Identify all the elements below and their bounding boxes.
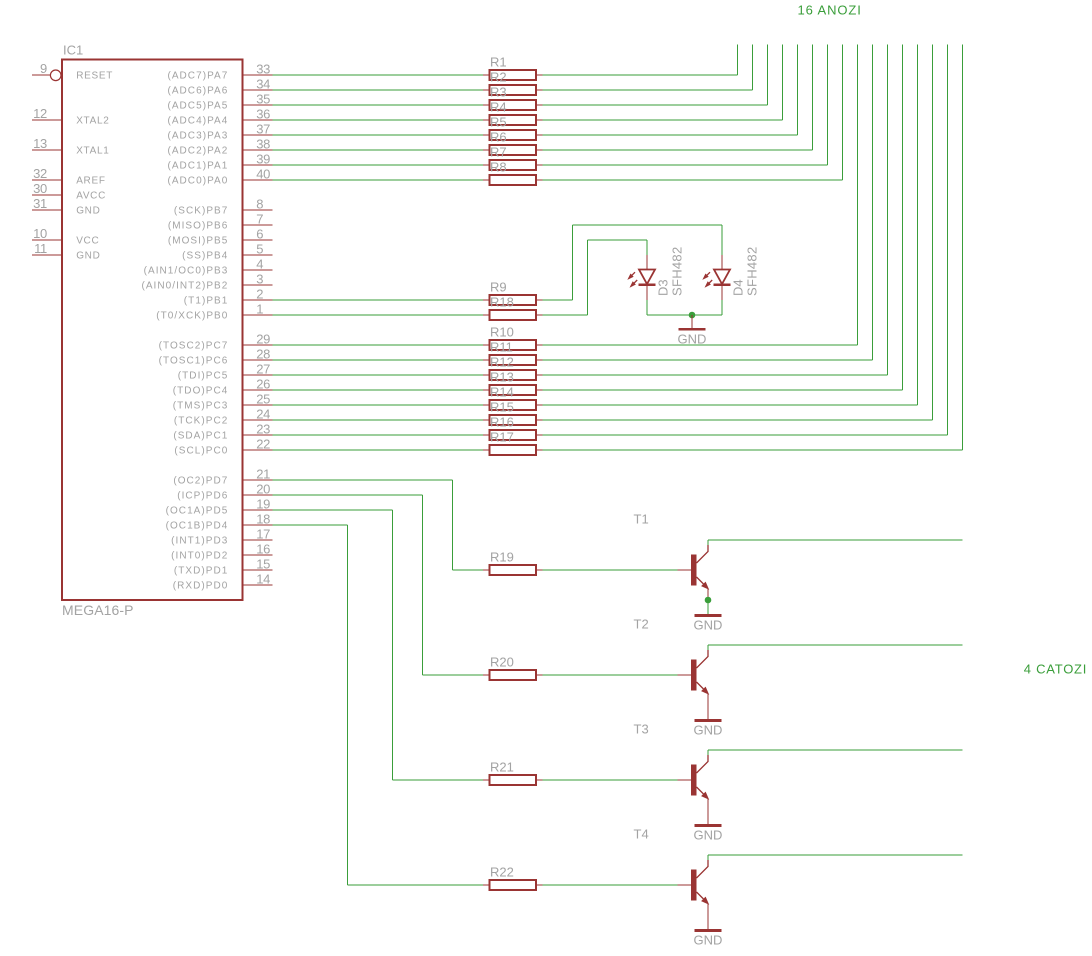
svg-text:13: 13 [33,136,47,151]
svg-text:3: 3 [256,272,263,287]
svg-text:16 ANOZI: 16 ANOZI [798,3,862,18]
svg-text:19: 19 [256,497,270,512]
svg-text:R22: R22 [490,865,514,880]
svg-text:18: 18 [256,512,270,527]
svg-text:(ADC7)PA7: (ADC7)PA7 [167,71,228,82]
svg-text:R8: R8 [490,160,507,175]
svg-text:T2: T2 [634,617,649,632]
svg-text:6: 6 [256,227,263,242]
svg-text:(TDO)PC4: (TDO)PC4 [173,386,229,397]
svg-text:R11: R11 [490,340,513,355]
svg-text:R7: R7 [490,145,507,160]
svg-text:20: 20 [256,482,270,497]
svg-text:R6: R6 [490,130,507,145]
svg-text:32: 32 [33,166,47,181]
svg-text:SFH482: SFH482 [670,247,685,297]
svg-text:21: 21 [256,467,270,482]
svg-text:2: 2 [256,287,263,302]
svg-text:24: 24 [256,407,270,422]
svg-text:R15: R15 [490,400,514,415]
svg-text:R5: R5 [490,115,507,130]
svg-text:R18: R18 [490,295,514,310]
svg-text:10: 10 [33,226,47,241]
svg-text:(TOSC2)PC7: (TOSC2)PC7 [159,341,229,352]
svg-text:(SCK)PB7: (SCK)PB7 [174,206,229,217]
svg-text:(OC1A)PD5: (OC1A)PD5 [166,506,229,517]
svg-text:36: 36 [256,107,270,122]
svg-text:33: 33 [256,62,270,77]
svg-text:(MOSI)PB5: (MOSI)PB5 [168,236,229,247]
svg-text:40: 40 [256,167,270,182]
svg-text:T4: T4 [634,827,649,842]
svg-text:(ADC0)PA0: (ADC0)PA0 [167,176,228,187]
svg-text:(AIN1/OC0)PB3: (AIN1/OC0)PB3 [144,266,229,277]
svg-text:(ADC3)PA3: (ADC3)PA3 [167,131,228,142]
svg-text:R19: R19 [490,550,514,565]
svg-text:XTAL2: XTAL2 [76,116,109,127]
svg-text:R13: R13 [490,370,514,385]
svg-text:38: 38 [256,137,270,152]
svg-text:(OC1B)PD4: (OC1B)PD4 [166,521,229,532]
svg-text:(MISO)PB6: (MISO)PB6 [168,221,229,232]
svg-text:(SDA)PC1: (SDA)PC1 [173,431,228,442]
svg-text:R4: R4 [490,100,507,115]
svg-text:39: 39 [256,152,270,167]
svg-text:14: 14 [256,572,270,587]
svg-text:7: 7 [256,212,263,227]
svg-text:GND: GND [694,933,723,948]
svg-text:(T1)PB1: (T1)PB1 [184,296,229,307]
svg-text:R3: R3 [490,85,507,100]
svg-text:(ADC4)PA4: (ADC4)PA4 [167,116,228,127]
svg-text:26: 26 [256,377,270,392]
svg-text:(INT1)PD3: (INT1)PD3 [171,536,228,547]
svg-text:(TXD)PD1: (TXD)PD1 [174,566,229,577]
svg-text:(INT0)PD2: (INT0)PD2 [171,551,228,562]
svg-text:29: 29 [256,332,270,347]
svg-text:(SS)PB4: (SS)PB4 [182,251,228,262]
svg-text:27: 27 [256,362,270,377]
svg-text:30: 30 [33,181,47,196]
svg-text:MEGA16-P: MEGA16-P [62,602,134,618]
svg-text:1: 1 [256,302,263,317]
svg-text:4 CATOZI: 4 CATOZI [1024,662,1087,677]
svg-text:R2: R2 [490,70,507,85]
svg-text:(TMS)PC3: (TMS)PC3 [173,401,229,412]
svg-text:VCC: VCC [76,236,99,247]
svg-text:12: 12 [33,106,47,121]
svg-text:R17: R17 [490,430,514,445]
svg-text:GND: GND [678,331,707,346]
svg-text:IC1: IC1 [63,43,83,58]
svg-text:R16: R16 [490,415,514,430]
svg-text:25: 25 [256,392,270,407]
svg-text:4: 4 [256,257,263,272]
svg-text:(ADC2)PA2: (ADC2)PA2 [167,146,228,157]
svg-text:R10: R10 [490,325,514,340]
svg-text:T1: T1 [634,512,649,527]
svg-text:R1: R1 [490,55,507,70]
svg-text:22: 22 [256,437,270,452]
svg-text:15: 15 [256,557,270,572]
svg-text:GND: GND [694,723,723,738]
svg-text:T3: T3 [634,722,649,737]
svg-text:R12: R12 [490,355,514,370]
svg-text:GND: GND [694,618,723,633]
svg-text:28: 28 [256,347,270,362]
svg-text:(TOSC1)PC6: (TOSC1)PC6 [159,356,229,367]
svg-text:5: 5 [256,242,263,257]
svg-text:GND: GND [76,251,100,262]
svg-text:SFH482: SFH482 [745,247,760,297]
svg-text:(RXD)PD0: (RXD)PD0 [173,581,229,592]
svg-text:R9: R9 [490,280,507,295]
svg-text:GND: GND [694,828,723,843]
svg-text:8: 8 [256,197,263,212]
svg-text:AVCC: AVCC [76,191,106,202]
svg-text:(SCL)PC0: (SCL)PC0 [174,446,228,457]
svg-text:(ADC5)PA5: (ADC5)PA5 [167,101,228,112]
svg-text:D4: D4 [731,279,746,296]
svg-text:(OC2)PD7: (OC2)PD7 [173,476,228,487]
svg-text:XTAL1: XTAL1 [76,146,109,157]
svg-text:35: 35 [256,92,270,107]
svg-text:23: 23 [256,422,270,437]
svg-text:(TCK)PC2: (TCK)PC2 [174,416,229,427]
svg-text:(ICP)PD6: (ICP)PD6 [177,491,228,502]
svg-text:11: 11 [34,241,47,256]
svg-text:R20: R20 [490,655,514,670]
svg-text:31: 31 [33,196,47,211]
svg-text:16: 16 [256,542,270,557]
svg-text:9: 9 [40,61,47,76]
svg-text:AREF: AREF [76,176,105,187]
svg-text:R21: R21 [490,760,514,775]
svg-text:17: 17 [256,527,270,542]
svg-text:(T0/XCK)PB0: (T0/XCK)PB0 [156,311,228,322]
svg-text:R14: R14 [490,385,514,400]
svg-text:(AIN0/INT2)PB2: (AIN0/INT2)PB2 [141,281,228,292]
svg-text:37: 37 [256,122,270,137]
svg-text:RESET: RESET [76,71,113,82]
svg-text:34: 34 [256,77,270,92]
svg-text:(ADC6)PA6: (ADC6)PA6 [167,86,228,97]
svg-text:(TDI)PC5: (TDI)PC5 [178,371,229,382]
svg-text:(ADC1)PA1: (ADC1)PA1 [167,161,228,172]
svg-text:GND: GND [76,206,100,217]
svg-text:D3: D3 [656,279,671,296]
